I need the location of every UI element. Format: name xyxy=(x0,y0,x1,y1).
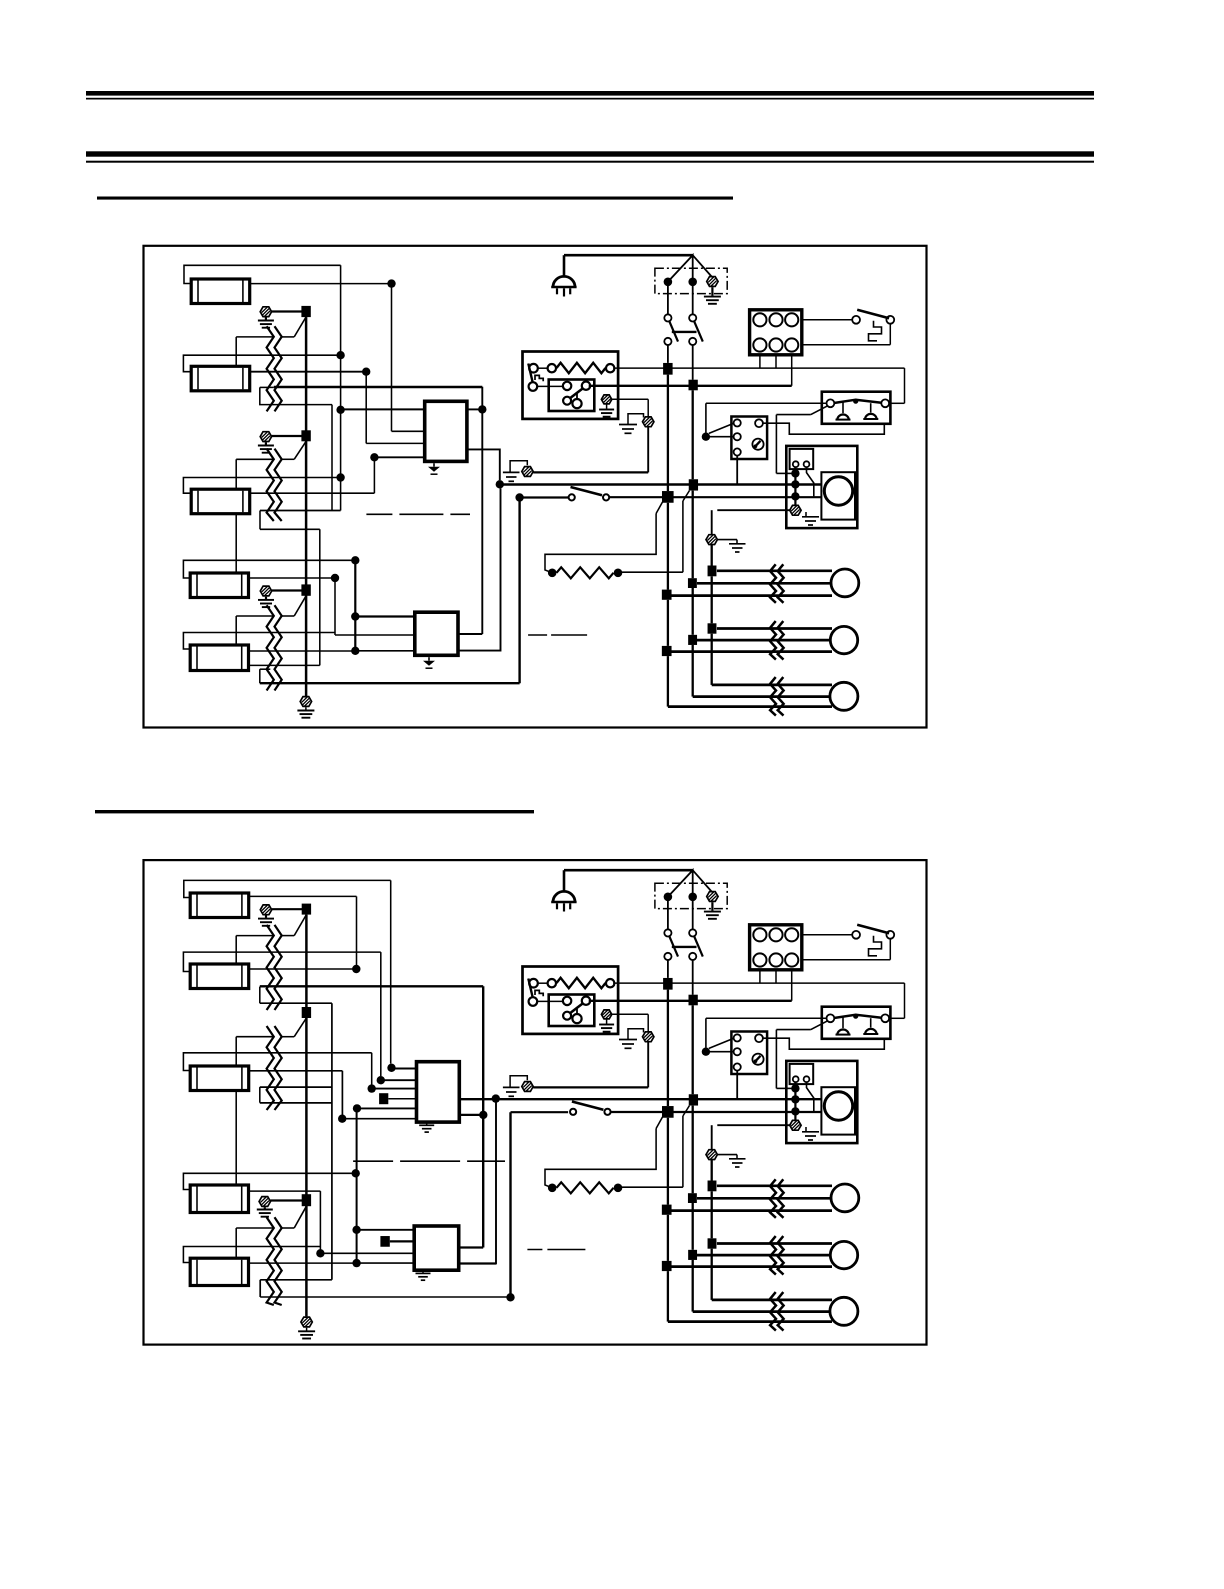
junction speaker1 mid xyxy=(688,1193,697,1203)
thermostat contact R xyxy=(881,1014,889,1022)
wire ballast ground out xyxy=(612,1013,648,1015)
bus wire A cont xyxy=(667,1118,669,1205)
ballast step glyph xyxy=(535,375,543,381)
ballast input contact lower xyxy=(529,997,538,1006)
thermostat bell stem 1 xyxy=(842,402,844,413)
starter blade xyxy=(570,388,584,399)
wire thick tap down xyxy=(482,986,484,1247)
mounting screw SC5 xyxy=(260,905,271,915)
speaker 3 cable mark xyxy=(770,1292,776,1331)
wire IC2 pin bus xyxy=(354,560,356,651)
wire LP8 output xyxy=(249,1070,343,1072)
thermostat contact L xyxy=(827,1014,835,1022)
starter pivot xyxy=(563,1012,571,1020)
thermostat wire in xyxy=(889,1017,904,1019)
wire switch line left 2 xyxy=(511,1111,569,1113)
relay feed dot xyxy=(702,1048,710,1056)
node LP9 bracket dot xyxy=(352,1169,360,1177)
timer relay K2 xyxy=(731,1032,767,1075)
bus wire B to spk3 xyxy=(692,1260,694,1312)
mounting screw SC2 xyxy=(260,432,271,442)
socket pin wire 2 xyxy=(775,970,777,983)
node IC2 pin1 dot xyxy=(351,612,359,620)
wire LP10 feed bracket xyxy=(183,1247,320,1263)
speaker 3 cable mark xyxy=(770,677,776,716)
heater ground bracket xyxy=(510,1076,527,1087)
wire RZ2 top tap xyxy=(236,458,274,460)
wiper W3 arm xyxy=(294,596,306,616)
ballast ground symbol xyxy=(599,409,614,411)
terminal ground symbol xyxy=(704,296,721,298)
wire LP3 output xyxy=(250,492,375,494)
wire LP7 feed bracket xyxy=(183,952,380,971)
motor terminal a xyxy=(793,461,799,467)
wire bus tap to IC1 xyxy=(341,408,425,410)
node lamp5 out dot xyxy=(351,647,359,655)
socket pin wire 2 xyxy=(775,355,777,368)
wire LP6 output xyxy=(249,895,357,897)
wire pole2 to junction xyxy=(692,345,694,380)
junction speaker2 mid xyxy=(688,1250,697,1260)
wire LP9 feed bracket xyxy=(183,1173,352,1189)
wire LP9 out down xyxy=(319,1191,321,1253)
speaker 1 cable mark xyxy=(770,1179,776,1218)
wire LP5 feed bracket xyxy=(183,633,335,650)
interlock switch S2b xyxy=(802,934,852,936)
wire starter output xyxy=(589,385,792,387)
node IC1 pin dot xyxy=(370,453,378,461)
socket bottom 3 xyxy=(785,338,798,351)
wiper W2 arm xyxy=(294,441,306,459)
wire dot to IC1 pin xyxy=(391,287,393,431)
lamp ballast box B1 xyxy=(523,352,619,419)
node IC3 pin3 dot xyxy=(368,1084,376,1092)
socket top 2 xyxy=(769,928,782,941)
page top double rule (thin) xyxy=(86,98,1094,100)
speaker 1 cable mark xyxy=(770,564,776,603)
starter box inner xyxy=(549,380,595,412)
wire tap corner down xyxy=(481,387,483,634)
node IC3 pin5 dot xyxy=(353,1104,361,1112)
terminal dot N xyxy=(688,893,697,902)
starter contact B xyxy=(582,382,590,390)
junction B2 xyxy=(689,1094,698,1105)
node LP9 out dot xyxy=(316,1249,324,1257)
relay pin 2 xyxy=(734,1048,741,1055)
switch tie bar xyxy=(672,946,697,948)
interlock switch S1b xyxy=(802,319,852,321)
ballast switch blade xyxy=(528,979,532,998)
power switch S2a pole 2 xyxy=(692,901,694,930)
wire jog3 up to switch xyxy=(518,498,520,684)
bus wire A cont 2 xyxy=(667,600,669,646)
IC4 plug pin xyxy=(380,1236,389,1247)
wire lower contact to starter xyxy=(537,1000,563,1002)
thermostat contact L xyxy=(827,399,835,407)
node LP7 out dot xyxy=(352,965,360,973)
junction B2 xyxy=(689,479,698,490)
ground symbol SC2 xyxy=(258,445,274,447)
motor lead column xyxy=(794,467,796,505)
socket pin wire 1 xyxy=(759,355,761,368)
wire LP2 feed bracket xyxy=(183,355,337,372)
wire RZ2 bottom jog xyxy=(259,511,261,530)
ground symbol SC3 xyxy=(258,599,274,601)
wire IC2 right pin a xyxy=(458,633,482,635)
wire heater column screw xyxy=(717,509,790,511)
resistor chain RZ6 xyxy=(267,1217,274,1305)
junction speaker2 low xyxy=(662,1261,672,1271)
node switch line dot xyxy=(515,493,523,501)
control module IC1 xyxy=(425,401,467,461)
junction speaker1 top xyxy=(708,1181,717,1192)
bus wire C cont xyxy=(711,1191,713,1238)
node IC3 pin1 dot xyxy=(387,1064,395,1072)
wire pin4 loop xyxy=(763,1038,884,1050)
wiper junction W2 xyxy=(301,430,310,441)
terminal board TB1b (6 sockets) xyxy=(750,310,802,355)
node bus dot LP3 xyxy=(336,473,344,481)
dimmer bus xyxy=(305,317,308,696)
motor terminal b xyxy=(804,1076,810,1082)
terminal dot N xyxy=(688,278,697,287)
power terminal strip TB1 (dash-dot box) xyxy=(655,268,727,293)
wire IC1 right pin xyxy=(467,408,482,410)
terminal apex fan wires xyxy=(668,870,693,897)
junction speaker2 mid xyxy=(688,635,697,645)
wire IC2 pin3 xyxy=(355,650,415,652)
wire amp main line xyxy=(500,483,822,485)
wire sqA diag xyxy=(656,502,662,514)
wire LP4 feed bracket xyxy=(183,560,352,578)
wire IC3 pin2 xyxy=(381,1079,417,1081)
junction block J1a xyxy=(663,363,673,375)
wire LP3 feed bracket xyxy=(183,478,337,494)
heater resistor feed 2 xyxy=(545,1129,656,1188)
speaker 1 leads xyxy=(717,1184,832,1187)
divider dash line 2 xyxy=(528,634,589,636)
wire IC3 right pin b xyxy=(459,1114,483,1116)
ballast resistor R2 xyxy=(538,982,548,984)
speaker 2 xyxy=(830,626,857,653)
heater resistor RH1 xyxy=(557,567,614,578)
wire plug to terminal apex xyxy=(564,869,693,872)
IC3 ground xyxy=(426,1122,428,1125)
power switch S1a pole 1 xyxy=(667,286,669,315)
heading 2 underline xyxy=(95,810,534,813)
starter pivot xyxy=(563,397,571,405)
relay feed dot xyxy=(702,433,710,441)
mounting screw SC3 xyxy=(260,586,271,596)
wiper junction W5 xyxy=(302,1007,311,1018)
thermostat blade xyxy=(834,1015,881,1018)
junction speaker2 low xyxy=(662,646,672,656)
junction block J2b xyxy=(689,995,698,1006)
wire relay feed xyxy=(705,1018,707,1048)
node lamp4 out dot xyxy=(331,574,339,582)
junction A2 xyxy=(662,1106,674,1118)
wire IC2 pin1 xyxy=(355,615,415,617)
heater ground symbol b xyxy=(503,471,520,473)
starter blade xyxy=(570,1003,584,1014)
wiper junction W3 xyxy=(301,584,310,595)
wire LP5 output xyxy=(249,650,353,652)
wire IC2 right pin b xyxy=(458,488,501,650)
lamp LP10 xyxy=(190,1258,248,1285)
bus wire main left xyxy=(340,265,342,510)
second double rule (thick) xyxy=(86,151,1094,156)
node heater res 2 dot L xyxy=(548,1184,557,1193)
node IC3 pin6 dot xyxy=(338,1115,346,1123)
terminal ground screw xyxy=(707,892,718,902)
divider dash line 3 xyxy=(353,1160,505,1162)
motor rotor xyxy=(824,477,852,505)
wire LP7 bracket down xyxy=(380,952,382,1076)
wire LP4 output xyxy=(249,577,336,579)
wire lower contact to starter xyxy=(537,385,563,387)
wire relay feed xyxy=(705,403,707,433)
thermostat bell 2 xyxy=(865,414,877,419)
wire thermostat to motor dot1 xyxy=(776,414,810,416)
thermostat blade xyxy=(834,400,881,403)
heater ground bracket xyxy=(510,461,527,472)
bus bottom screw SC7 xyxy=(301,1317,312,1327)
speaker 3 xyxy=(830,1297,858,1325)
wire LP8 feed bracket xyxy=(183,1053,371,1071)
bus wire B (mid) xyxy=(692,1005,694,1094)
resistor chain RZ4 xyxy=(267,925,274,1010)
bus wire A (left) xyxy=(667,990,669,1106)
bus wire B cont 2 xyxy=(692,588,694,635)
motor lead column xyxy=(794,1082,796,1120)
wire tap down to LP3 top xyxy=(235,459,237,489)
heater ground screw G1b xyxy=(522,467,533,477)
node amp line dot xyxy=(496,480,504,488)
relay pin 3 xyxy=(734,448,741,455)
wire LP1 feed bracket xyxy=(184,265,341,283)
resistor chain RZ3 xyxy=(267,605,274,690)
motor rotor box xyxy=(821,472,855,519)
bus wire A to spk3 xyxy=(667,656,669,707)
bus wire C to spk3 xyxy=(711,634,713,685)
figure 1 border box xyxy=(144,246,927,728)
socket bottom 1 xyxy=(753,953,766,966)
motor ground screw xyxy=(790,1120,801,1130)
wire starter output xyxy=(589,1000,792,1002)
ballast input contact upper xyxy=(529,979,538,988)
socket pin wire 3 xyxy=(791,355,793,386)
interlock return wire xyxy=(889,324,891,345)
bus wire B cont 2 xyxy=(692,1203,694,1250)
wiper W4 arm xyxy=(294,915,306,936)
junction block J1b xyxy=(689,380,698,391)
terminal dot L xyxy=(664,278,673,287)
wire IC4 pin3 xyxy=(357,1262,415,1264)
timer relay K1 xyxy=(731,417,767,460)
thermostat pivot dot xyxy=(853,1014,858,1019)
wire tap down to LP5 top xyxy=(235,616,237,645)
socket top 1 xyxy=(753,928,766,941)
ballast switch blade xyxy=(528,364,532,383)
bus wire C (right) xyxy=(711,545,713,566)
mounting screw SC6 xyxy=(259,1197,270,1207)
wire RZ1 bottom jog xyxy=(260,387,332,404)
motor rotor box xyxy=(821,1087,855,1134)
wire IC4 right pin a xyxy=(459,1246,484,1248)
motor lead dot 2 xyxy=(791,480,799,488)
wire RZ5 bottom jog xyxy=(260,1086,332,1088)
wire heater res 2 right xyxy=(618,1186,683,1188)
control module IC2 xyxy=(415,612,458,655)
wire RZ6 bottom jog xyxy=(259,1280,261,1297)
wire lamp4 dot to IC2 xyxy=(334,578,336,635)
wire IC3 pin1 xyxy=(392,1068,417,1070)
wiper W1 arm xyxy=(294,317,306,337)
motor lead dot 1 xyxy=(791,1084,799,1092)
thermostat bell 2 xyxy=(865,1029,877,1034)
wire ballast ground out xyxy=(612,398,648,400)
interlock step glyph xyxy=(869,321,882,341)
resistor chain RZ2 xyxy=(267,449,274,521)
lamp LP4 xyxy=(190,573,248,598)
starter box inner xyxy=(549,995,595,1027)
speaker column screw G1c xyxy=(706,535,717,545)
heater ground screw G2b xyxy=(522,1082,533,1092)
wire RZ4 top tap xyxy=(236,935,274,937)
junction block J2a xyxy=(663,978,673,990)
socket bottom 2 xyxy=(769,338,782,351)
speaker 2 leads xyxy=(717,1242,832,1245)
wire resistor line corner down xyxy=(904,368,906,403)
wire dot into IC1 xyxy=(374,456,424,458)
door switch S2c xyxy=(570,1109,576,1115)
heater resistor feed xyxy=(545,514,656,573)
chassis ground screw G2a xyxy=(643,1032,654,1042)
socket pin wire 3 xyxy=(791,970,793,1001)
resistor chain RZ1 xyxy=(267,326,274,411)
bus wire A (left) xyxy=(667,375,669,491)
junction speaker1 low xyxy=(662,590,672,600)
wire sqB diag xyxy=(683,491,690,501)
power switch S2a pole 1 xyxy=(667,901,669,930)
thermostat blade tail xyxy=(811,406,828,415)
thermostat bell 1 xyxy=(837,1029,849,1034)
wire RZ4 thick tap xyxy=(260,985,483,987)
node heater res 2 dot R xyxy=(614,1184,623,1193)
wire ballast resistor output xyxy=(613,367,904,369)
motor terminal sub-box xyxy=(790,1064,814,1084)
speaker column screw G2c xyxy=(706,1150,717,1160)
motor terminal b xyxy=(804,461,810,467)
wire pole2 to junction xyxy=(692,960,694,995)
wire RZ3 bottom jog xyxy=(260,668,271,670)
lamp ballast box B2 xyxy=(523,967,619,1034)
control module IC3 xyxy=(417,1062,460,1122)
second double rule (thin) xyxy=(86,161,1094,163)
bus wire B cont xyxy=(692,491,694,579)
ground symbol SC5 xyxy=(258,918,274,920)
motor terminal a xyxy=(793,1076,799,1082)
motor lead dot 3 xyxy=(791,1107,799,1115)
divider dash line 1 xyxy=(366,513,470,515)
wire IC3 pin3 xyxy=(372,1088,417,1090)
heater ground symbol b xyxy=(503,1086,520,1088)
wire ground screw a down xyxy=(647,1043,649,1088)
wire LP1 output xyxy=(250,283,392,285)
bus bottom screw SC4 xyxy=(300,697,311,707)
speaker 2 leads xyxy=(717,627,832,630)
wire mid tap down xyxy=(341,1071,343,1119)
motor ground screw xyxy=(790,505,801,515)
speaker column screw ground xyxy=(717,539,737,541)
node IC4 pin3 dot xyxy=(352,1259,360,1267)
wire RZ5 top tap xyxy=(236,1036,274,1038)
starter pendulum xyxy=(576,1008,578,1015)
ground symbol SC7 xyxy=(298,1330,315,1332)
ground symbol SC1 xyxy=(258,320,274,322)
wire SC1 to wiper xyxy=(272,310,303,312)
motor lead dot 1 xyxy=(791,469,799,477)
wire SC3 to wiper xyxy=(272,589,302,591)
junction A2 xyxy=(662,491,674,503)
thermostat bell stem 2 xyxy=(870,1018,872,1027)
starter contact A xyxy=(563,382,571,390)
thermostat bell stem 2 xyxy=(870,403,872,412)
wire tap down to LP7 top xyxy=(235,936,237,964)
wire jog2 to LP5 xyxy=(249,664,320,666)
node heater res dot R xyxy=(614,569,623,578)
wire tap down to LP2 top xyxy=(235,337,237,366)
socket top 1 xyxy=(753,313,766,326)
wire SC2 to wiper xyxy=(272,435,303,437)
ground symbol SC6 xyxy=(257,1209,273,1211)
wire pin4 loop xyxy=(763,423,884,435)
relay pin 4 xyxy=(755,419,763,427)
junction speaker1 mid xyxy=(688,578,697,588)
wire heater res right xyxy=(618,571,683,573)
node IC3 right dot xyxy=(479,1111,487,1119)
socket bottom 2 xyxy=(769,953,782,966)
thermostat bell 1 xyxy=(837,414,849,419)
wire dot to pin2 xyxy=(710,1051,734,1053)
relay pin 1 xyxy=(734,1034,741,1041)
control module IC4 xyxy=(414,1226,459,1270)
figure 2 border box xyxy=(144,860,927,1345)
wire SC5 to wiper xyxy=(272,908,302,910)
wire switch drop xyxy=(509,1112,511,1297)
wire plug to terminal apex xyxy=(564,254,693,257)
wire to heater screw xyxy=(533,1086,648,1088)
wire tap down to LP10 top xyxy=(235,1228,237,1258)
ballast input contact upper xyxy=(529,364,538,373)
wiper junction W1 xyxy=(301,306,310,317)
wire heater column screw xyxy=(717,1124,790,1126)
AC line plug P2 xyxy=(563,870,566,891)
thermostat box T1 xyxy=(822,392,891,424)
socket bottom 3 xyxy=(785,953,798,966)
starter pendulum xyxy=(576,393,578,400)
terminal ground symbol xyxy=(704,911,721,913)
relay timer dial xyxy=(752,1054,763,1065)
bus wire A to spk3 xyxy=(667,1271,669,1322)
wire IC1 pin to amp dot xyxy=(467,449,500,480)
starter contact A xyxy=(563,997,571,1005)
wire LP3 bottom to LP4 top xyxy=(235,514,237,573)
door switch S1c xyxy=(569,494,575,500)
node amp line dot 2 xyxy=(492,1094,500,1102)
wire IC3 right pin a xyxy=(459,1098,496,1100)
node bus tap dot xyxy=(336,406,344,414)
